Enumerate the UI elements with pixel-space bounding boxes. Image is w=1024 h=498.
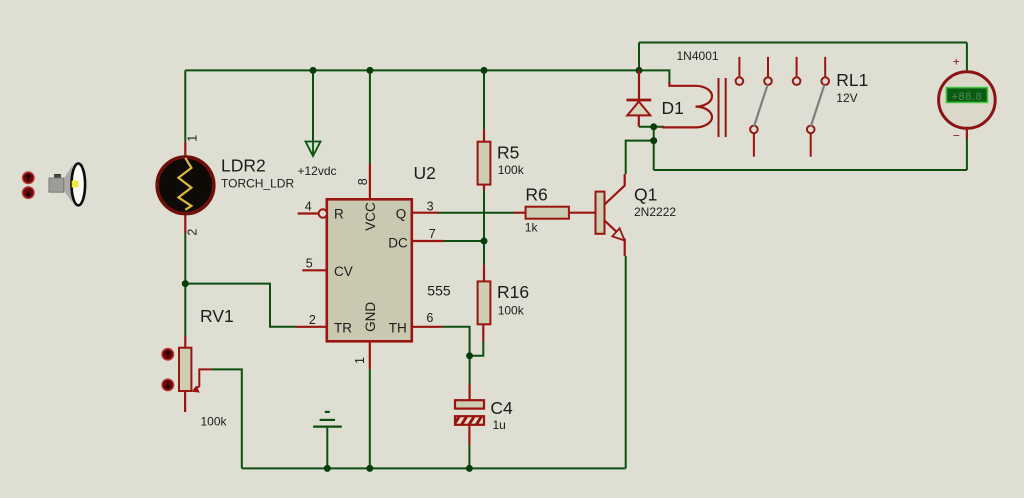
U2 pin 8 VCC stub (369, 164, 371, 199)
power +12vdc symbol (306, 142, 321, 157)
wire: LDR node down to RV1 (184, 284, 186, 336)
wire: C4 bottom to ground rail (468, 445, 470, 469)
resistor R6 (514, 207, 596, 219)
relay RL1 contact pins (top row) (736, 57, 829, 85)
wire: VCC pin8 branch (369, 70, 371, 164)
svg-text:VCC: VCC (363, 202, 378, 231)
svg-text:4: 4 (305, 199, 312, 213)
svg-text:1N4001: 1N4001 (677, 49, 719, 63)
wire: coil bottom to D1 bottom (639, 126, 664, 128)
svg-text:100k: 100k (201, 415, 228, 429)
torch actuator buttons (23, 172, 35, 198)
relay RL1 switch blades (754, 85, 825, 127)
svg-text:+88.8: +88.8 (951, 91, 982, 103)
capacitor C4 (polarized) (455, 384, 484, 445)
svg-text:Q: Q (396, 206, 407, 221)
U2 pin 1 GND stub (369, 341, 371, 369)
svg-text:R: R (334, 206, 344, 221)
wire: pin1 GND to rail (369, 369, 371, 469)
relay RL1 common pins (bottom row) (750, 126, 814, 157)
svg-text:2: 2 (185, 229, 199, 236)
LDR LDR2 (157, 142, 214, 233)
svg-text:6: 6 (426, 311, 433, 325)
relay RL1 coil (662, 82, 712, 127)
wire: R5 top branch (483, 70, 485, 129)
wire: Q1 collector up (626, 141, 654, 174)
svg-text:Q1: Q1 (634, 184, 657, 204)
diode D1 1N4001 (627, 70, 652, 126)
node: rail/VCC junction (366, 67, 373, 74)
U2 pin 4 reset stub and bubble (298, 209, 327, 217)
node: rail/+12vdc junction (310, 67, 317, 74)
svg-text:8: 8 (356, 178, 370, 185)
U2 pin 6 TH stub (412, 326, 442, 328)
wire: pin6 TH to node (442, 327, 469, 356)
wire: meter negative drop (966, 129, 968, 170)
svg-text:1k: 1k (525, 221, 539, 235)
relay RL1 core bars (719, 78, 726, 137)
torch light source icon (49, 163, 85, 205)
svg-text:TORCH_LDR: TORCH_LDR (221, 176, 294, 190)
wire: meter positive drop (966, 43, 968, 72)
svg-text:+12vdc: +12vdc (298, 164, 337, 178)
wire: bottom rail of meter loop (654, 169, 967, 171)
potentiometer RV1 (179, 336, 211, 412)
wire: node to C4 top (469, 356, 471, 384)
wire: LDR top branch (184, 70, 186, 142)
voltmeter instrument (939, 72, 996, 139)
svg-text:1u: 1u (493, 418, 506, 432)
svg-text:LDR2: LDR2 (221, 156, 266, 176)
node: ground rail/C4 junction (466, 465, 473, 472)
svg-text:D1: D1 (662, 98, 684, 118)
node: ground rail/earth junction (324, 465, 331, 472)
wire: Q output line pin3 to R6 (437, 212, 513, 214)
wire: RV1 wiper run (211, 369, 242, 468)
svg-text:−: − (953, 129, 960, 143)
wire: top-right rail to meter (639, 42, 967, 44)
svg-text:100k: 100k (498, 163, 525, 177)
wire: R16 bottom to node (470, 341, 484, 356)
wire: D1 top junction riser (638, 43, 640, 71)
node: R5/pin7 junction (481, 238, 488, 245)
svg-text:1: 1 (353, 357, 367, 364)
svg-text:C4: C4 (490, 398, 513, 418)
wire: top power rail (185, 69, 639, 71)
svg-text:R16: R16 (497, 282, 529, 302)
wire: LDR bottom branch (184, 234, 186, 284)
svg-text:R5: R5 (497, 143, 519, 163)
resistor R5 (478, 129, 491, 190)
svg-text:+: + (953, 55, 960, 69)
transistor Q1 2N2222 (596, 174, 625, 256)
svg-text:7: 7 (429, 227, 436, 241)
U2 pin 3 Q stub (412, 212, 439, 214)
node: TH/R16/C4 junction (466, 352, 473, 359)
svg-text:100k: 100k (498, 303, 525, 317)
U2 pin 2 TR stub (296, 326, 327, 328)
svg-text:2N2222: 2N2222 (634, 205, 676, 219)
wire: bottom ground rail (242, 467, 626, 469)
svg-text:12V: 12V (836, 91, 857, 105)
RV1 actuator buttons (162, 349, 174, 391)
svg-text:1: 1 (186, 135, 200, 142)
wire: +12vdc branch (312, 70, 314, 154)
wire: R5 bottom to pin7 node and R16 (483, 190, 485, 265)
wire: relay node vertical (653, 127, 655, 170)
svg-text:555: 555 (427, 283, 451, 299)
wire: pin7 DC to node (444, 240, 484, 242)
svg-text:DC: DC (388, 235, 408, 250)
svg-text:R6: R6 (525, 185, 547, 205)
U2 pin 7 DC stub (412, 240, 444, 242)
svg-text:GND: GND (363, 302, 378, 332)
U2 pin 5 CV stub (302, 269, 327, 271)
wire: coil top terminal run (639, 70, 669, 83)
svg-text:U2: U2 (414, 163, 436, 183)
node: collector/meter junction (650, 137, 657, 144)
node: rail/R5 junction (481, 67, 488, 74)
ground earth symbol (313, 412, 342, 427)
node: rail/D1 junction (636, 67, 643, 74)
ic U2 555 timer body (327, 199, 412, 341)
svg-text:TR: TR (334, 321, 352, 336)
svg-text:TH: TH (389, 321, 407, 336)
resistor R16 (478, 265, 491, 342)
svg-text:5: 5 (306, 256, 313, 270)
svg-text:CV: CV (334, 264, 353, 279)
node: LDR/RV1/TR junction (182, 280, 189, 287)
svg-text:RL1: RL1 (836, 70, 868, 90)
node: ground rail/pin1 junction (366, 465, 373, 472)
wire: ground symbol stem (326, 428, 328, 469)
wire: LDR node to TR pin2 (185, 284, 296, 327)
wire: Q1 emitter down to rail (625, 256, 627, 469)
svg-text:2: 2 (309, 313, 316, 327)
svg-text:RV1: RV1 (200, 306, 234, 326)
svg-text:3: 3 (427, 199, 434, 213)
node: D1/coil bottom junction (650, 123, 657, 130)
